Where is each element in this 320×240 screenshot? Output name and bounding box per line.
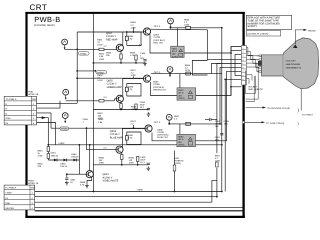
svg-text:TP601: TP601 xyxy=(80,53,87,56)
svg-text:(CRG BLK): (CRG BLK) xyxy=(154,39,165,42)
svg-text:C654: C654 xyxy=(140,101,146,104)
wire box1 drop xyxy=(176,28,178,46)
wire green out emitter to spark xyxy=(151,82,178,96)
svg-text:33uF: 33uF xyxy=(140,104,146,107)
svg-text:R668: R668 xyxy=(80,181,86,184)
svg-text:PWB-B: PWB-B xyxy=(34,15,60,24)
transistor Q654 red out xyxy=(143,28,150,35)
svg-text:WG04+7B: WG04+7B xyxy=(28,182,39,185)
svg-text:R674: R674 xyxy=(131,120,137,123)
svg-text:R666: R666 xyxy=(185,64,191,67)
TP602 test point box xyxy=(93,70,106,74)
wire stub y54.3 xyxy=(235,53,241,55)
svg-text:R660: R660 xyxy=(98,118,104,121)
svg-text:C653: C653 xyxy=(128,35,134,38)
wire R661 stack xyxy=(47,145,49,160)
wire Q651 emitter xyxy=(120,51,122,63)
svg-text:(CRG): (CRG) xyxy=(178,97,185,100)
pin numbers CRT neck xyxy=(257,55,258,74)
diode D662 xyxy=(64,159,67,162)
wire blue out signal xyxy=(220,67,241,124)
svg-text:P601: P601 xyxy=(28,91,34,94)
wire B+ vertical xyxy=(221,28,223,192)
wire emitter-return vertical xyxy=(92,13,94,192)
wire shield bus xyxy=(35,210,244,212)
wire blue B+ xyxy=(169,123,222,125)
to yoke arrow xyxy=(242,121,298,125)
svg-text:R657: R657 xyxy=(98,112,104,115)
svg-text:H601: H601 xyxy=(172,47,178,50)
svg-text:PW02: PW02 xyxy=(28,179,35,182)
svg-text:CRT: CRT xyxy=(30,3,48,12)
wire heater bus xyxy=(35,206,244,208)
svg-text:1: 1 xyxy=(243,47,244,50)
svg-text:TO PWB-A: TO PWB-A xyxy=(5,187,16,190)
svg-text:C651: C651 xyxy=(140,52,146,55)
connector table TO PWB-A (lower, CN902) xyxy=(4,185,36,210)
capacitor C661 xyxy=(65,178,68,179)
wire red feedback loop xyxy=(127,32,141,46)
svg-text:SG-A: SG-A xyxy=(178,92,184,95)
resistor R655 red emitter2 xyxy=(135,55,137,60)
svg-text:7: 7 xyxy=(243,70,244,73)
blue stage labels xyxy=(83,115,181,165)
wire right stub col xyxy=(230,47,232,96)
connector table TO PWB-A (upper, CN601) xyxy=(4,96,37,125)
wire blue feedback loop xyxy=(127,132,141,145)
svg-text:(28.75kV AT 1.00mA): (28.75kV AT 1.00mA) xyxy=(247,33,268,36)
wire D-to-Q661 vertical xyxy=(78,145,80,174)
wire stub x225 xyxy=(224,79,226,191)
wire green spark to right xyxy=(196,87,242,96)
svg-text:C665: C665 xyxy=(224,120,230,123)
svg-text:R658: R658 xyxy=(99,156,105,159)
safety note box xyxy=(246,15,291,29)
svg-text:ANODE: ANODE xyxy=(308,30,316,33)
wire red signal drop xyxy=(208,30,242,60)
svg-text:155-13: 155-13 xyxy=(60,165,68,168)
power flag right G xyxy=(167,67,173,78)
wire vertical riser x77 xyxy=(76,32,78,103)
svg-text:): ) xyxy=(298,122,299,126)
wire red out collector xyxy=(151,28,208,31)
svg-text:155119: 155119 xyxy=(71,155,79,158)
svg-text:H603: H603 xyxy=(178,136,184,139)
svg-text:V101 CRT: V101 CRT xyxy=(286,60,297,63)
svg-text:RED OUT: RED OUT xyxy=(154,41,165,44)
svg-text:VIDEO MUTE: VIDEO MUTE xyxy=(103,180,119,183)
resistor R662 xyxy=(47,154,49,159)
wire table row1 xyxy=(37,102,78,104)
wire table row2 xyxy=(37,101,61,108)
wire Q651 collector to out base xyxy=(77,31,143,33)
svg-text:C657: C657 xyxy=(128,134,134,137)
resistor R654 inline green input xyxy=(99,100,104,102)
wire GND bus xyxy=(35,201,212,203)
resistor R667 xyxy=(216,162,218,167)
TP603 test point box xyxy=(60,127,69,131)
ground green stage xyxy=(147,112,151,116)
wire red B+ rail xyxy=(171,27,222,29)
svg-text:WG04+1B: WG04+1B xyxy=(28,93,39,96)
svg-text:16-1: 16-1 xyxy=(140,161,145,164)
wire R667 lower xyxy=(216,168,218,197)
svg-text:GET A: GET A xyxy=(154,25,161,28)
wire green feedback loop xyxy=(127,84,141,97)
wire table row4 GND xyxy=(37,118,49,145)
spark gap H602 (green) xyxy=(177,88,196,100)
green stage labels xyxy=(97,64,190,120)
svg-text:GND: GND xyxy=(5,202,10,205)
svg-text:CBX: CBX xyxy=(32,98,37,101)
resistor R658 blue emitter xyxy=(121,155,123,160)
svg-text:C667: C667 xyxy=(215,136,221,139)
wire C661 branch xyxy=(67,173,80,175)
svg-text:2: 2 xyxy=(257,59,258,62)
wire second resistor drops xyxy=(135,55,137,63)
capacitor C651 red xyxy=(143,60,146,61)
svg-text:2kV: 2kV xyxy=(172,53,176,56)
ground red stage xyxy=(143,62,147,66)
svg-text:155133: 155133 xyxy=(51,154,59,157)
capacitor C652 blue xyxy=(147,163,150,164)
svg-text:L601: L601 xyxy=(174,157,180,160)
svg-text:GET A: GET A xyxy=(154,71,161,74)
diode D663 xyxy=(74,159,77,162)
svg-text:(CRG): (CRG) xyxy=(172,55,179,58)
svg-text:G: G xyxy=(6,108,8,111)
svg-text:C661: C661 xyxy=(70,179,76,182)
anode button xyxy=(293,44,298,48)
svg-text:R655: R655 xyxy=(130,52,136,55)
wire +200V bus xyxy=(35,191,222,193)
resistor R661 xyxy=(47,147,49,152)
svg-text:A66ETZ54X98: A66ETZ54X98 xyxy=(286,63,301,66)
TP601 test point box xyxy=(79,52,90,56)
svg-text:Q656: Q656 xyxy=(157,128,163,131)
svg-text:C655: C655 xyxy=(83,118,89,121)
CRT gun block xyxy=(258,61,262,66)
resistor R665 inline xyxy=(186,26,191,29)
svg-text:TO PWB-A: TO PWB-A xyxy=(302,114,313,117)
wire blue input rail xyxy=(51,127,145,129)
to degauss arrow xyxy=(246,106,314,116)
svg-text:4: 4 xyxy=(243,59,244,62)
svg-text:D662: D662 xyxy=(60,163,66,166)
resistor R657 green emitter2 xyxy=(135,104,137,109)
svg-text:TP603: TP603 xyxy=(61,128,68,131)
resistor R666 inline xyxy=(186,72,191,75)
right border feedthrough connector pins xyxy=(241,46,246,86)
svg-text:8: 8 xyxy=(243,74,244,77)
svg-text:R659: R659 xyxy=(129,156,135,159)
svg-text:R654: R654 xyxy=(97,74,103,77)
CRT funnel V101 xyxy=(262,38,319,89)
svg-text:RED AMP: RED AMP xyxy=(106,38,118,41)
svg-text:SOCKET: SOCKET xyxy=(248,86,258,89)
wire table row5 xyxy=(37,123,56,145)
svg-text:R662: R662 xyxy=(37,163,43,166)
svg-text:SAFETY.: SAFETY. xyxy=(248,25,258,28)
svg-text:TO YOKE COIL(S): TO YOKE COIL(S) xyxy=(266,122,285,125)
wire network xyxy=(35,13,244,211)
svg-text:6: 6 xyxy=(243,66,244,69)
wire TP602 feed xyxy=(77,70,93,72)
resistor R668b inline xyxy=(186,122,191,125)
ground Q661 xyxy=(85,184,89,188)
svg-text:R656: R656 xyxy=(131,106,137,109)
power flag left R xyxy=(62,39,68,50)
wire diode row xyxy=(48,159,79,161)
anode cap lead xyxy=(300,89,302,111)
wire L601 riser xyxy=(174,151,176,192)
svg-text:H602: H602 xyxy=(178,89,184,92)
svg-text:A68KSB96X*13: A68KSB96X*13 xyxy=(286,67,302,70)
svg-text:+180V: +180V xyxy=(58,142,65,145)
wire green input rail xyxy=(66,100,115,102)
wire Q652 emitter xyxy=(120,102,122,110)
svg-text:2kV: 2kV xyxy=(178,94,182,97)
wire Q661 emitter xyxy=(87,177,92,183)
diode D661 xyxy=(54,159,57,162)
svg-text:V601 (A)90702: V601 (A)90702 xyxy=(248,88,263,91)
svg-text:2kV: 2kV xyxy=(178,141,182,144)
ground blue stage xyxy=(147,166,151,170)
power flag left G xyxy=(63,89,69,100)
wire blue spark to right xyxy=(196,71,242,140)
svg-text:D661: D661 xyxy=(51,152,57,155)
wire Q653 collector to out base xyxy=(123,129,146,148)
svg-text:33uF: 33uF xyxy=(140,158,146,161)
wire stub y79.4 xyxy=(225,78,241,80)
svg-text:BLUE AMP: BLUE AMP xyxy=(110,136,123,139)
wire right stub y50.4 xyxy=(231,49,241,51)
wire green signal xyxy=(212,64,242,74)
spark gap H601 (red) xyxy=(171,46,184,58)
wire blue base res drop xyxy=(133,125,135,128)
wire long y78 xyxy=(77,77,143,79)
svg-text:(CRG): (CRG) xyxy=(178,144,185,147)
mute + misc labels xyxy=(37,120,229,192)
wire mute riser xyxy=(89,145,91,171)
svg-text:R672: R672 xyxy=(131,69,137,72)
wire red spark to right xyxy=(184,47,241,54)
svg-text:2kV: 2kV xyxy=(215,125,219,128)
wire 9V vertical xyxy=(216,64,218,154)
svg-text:TO DEGAUSS COIL(S): TO DEGAUSS COIL(S) xyxy=(267,107,290,110)
transistor Q653 blue amp xyxy=(116,146,123,153)
spark gap H603 (blue) xyxy=(177,134,196,146)
svg-text:5: 5 xyxy=(243,62,244,65)
wire green loop xyxy=(192,61,207,76)
svg-text:R653: R653 xyxy=(106,52,112,55)
CRT harness wires xyxy=(245,48,259,102)
anode lead xyxy=(295,30,303,44)
wire gnd corner xyxy=(212,180,217,202)
svg-text:D663: D663 xyxy=(71,153,77,156)
svg-text:4: 4 xyxy=(257,66,258,69)
svg-text:BLUE OUT: BLUE OUT xyxy=(157,136,169,139)
wire blue emitter bus xyxy=(93,164,148,166)
wire +180V rail xyxy=(48,144,222,146)
svg-text:R652: R652 xyxy=(99,53,105,56)
resistor R651 inline red input xyxy=(99,48,104,50)
svg-text:R667: R667 xyxy=(174,115,180,118)
wire red out emitter to spark xyxy=(150,35,171,54)
power flag left B xyxy=(62,113,68,124)
svg-text:GET A: GET A xyxy=(154,121,161,124)
wire H1 bus xyxy=(35,196,217,198)
svg-text:C2799: C2799 xyxy=(153,83,160,86)
svg-text:+200V: +200V xyxy=(5,192,12,195)
main frame border xyxy=(25,12,244,218)
wire green base jog xyxy=(115,99,117,101)
svg-text:C2799: C2799 xyxy=(154,36,161,39)
wire green B+ xyxy=(151,73,222,75)
svg-text:5: 5 xyxy=(257,70,258,73)
svg-text:C656: C656 xyxy=(128,86,134,89)
svg-text:R651: R651 xyxy=(97,39,103,42)
svg-text:(CRG BLK): (CRG BLK) xyxy=(153,86,164,89)
svg-text:FERRITE: FERRITE xyxy=(174,160,184,163)
wire box2 drop xyxy=(179,74,181,88)
svg-text:R665: R665 xyxy=(184,18,190,21)
ground C661 xyxy=(65,181,69,185)
svg-text:R664: R664 xyxy=(131,21,137,24)
transistor Q656 blue out xyxy=(145,125,152,132)
power flag right B xyxy=(166,114,172,125)
wire Q661 base xyxy=(79,173,86,175)
svg-text:16-1: 16-1 xyxy=(140,106,145,109)
svg-text:3: 3 xyxy=(257,62,258,65)
pin numbers feedthrough xyxy=(243,47,244,81)
svg-text:(CATHODE DRIVE): (CATHODE DRIVE) xyxy=(34,24,55,27)
svg-text:9: 9 xyxy=(243,78,244,81)
svg-text:C2799: C2799 xyxy=(157,131,164,134)
transistor Q661 video mute xyxy=(86,171,93,178)
svg-text:(GRN): (GRN) xyxy=(174,162,181,165)
anode voltage box xyxy=(246,31,280,37)
wire blue out emitter to spark xyxy=(152,133,177,141)
svg-text:VBA: VBA xyxy=(31,187,36,190)
svg-text:TO PWB-A: TO PWB-A xyxy=(6,98,17,101)
inductor L601 xyxy=(173,165,176,171)
svg-text:1: 1 xyxy=(257,55,258,58)
resistor R653 red emitter xyxy=(120,54,122,59)
wire cap stub xyxy=(205,119,209,121)
wire Q653 emitter xyxy=(121,153,123,165)
red stage labels xyxy=(97,18,190,61)
svg-text:GND: GND xyxy=(6,117,11,120)
power flag right R xyxy=(168,18,174,29)
svg-text:C652: C652 xyxy=(140,156,146,159)
wire red emitter bus xyxy=(93,62,145,64)
capacitor C664 xyxy=(220,134,223,135)
svg-text:3: 3 xyxy=(243,55,244,58)
wire blue riser xyxy=(87,128,117,149)
wire Q652 collector to out base xyxy=(123,79,144,97)
resistor R656 green emitter xyxy=(120,104,122,109)
svg-text:(CRG BLK): (CRG BLK) xyxy=(157,134,168,137)
svg-text:GREEN OUT: GREEN OUT xyxy=(153,88,167,91)
svg-text:2: 2 xyxy=(243,51,244,54)
transistor Q652 green amp xyxy=(116,95,123,102)
wire green emitter bus xyxy=(93,109,148,111)
transistor Q655 green out xyxy=(143,75,150,82)
capacitor C654 green xyxy=(147,108,150,109)
svg-text:Q655: Q655 xyxy=(153,81,159,84)
resistor R659 blue emitter2 xyxy=(137,157,139,162)
svg-text:R667: R667 xyxy=(215,154,221,157)
svg-text:Q654: Q654 xyxy=(154,34,160,37)
svg-text:SG-A: SG-A xyxy=(172,50,178,53)
svg-text:HEATER: HEATER xyxy=(5,207,14,210)
svg-text:C664: C664 xyxy=(215,120,221,123)
transistor Q651 red amp xyxy=(116,44,123,51)
heater wires xyxy=(246,76,259,99)
wire box3 drop xyxy=(179,124,181,134)
svg-text:GREEN AMP: GREEN AMP xyxy=(107,86,122,89)
svg-text:50V: 50V xyxy=(140,57,144,60)
svg-text:R661: R661 xyxy=(37,150,43,153)
svg-text:SG-A: SG-A xyxy=(178,138,184,141)
CRT neck pins xyxy=(259,55,261,72)
svg-text:+200V: +200V xyxy=(136,188,143,191)
wire red input rail xyxy=(65,48,117,50)
wire table row3 xyxy=(37,113,52,128)
